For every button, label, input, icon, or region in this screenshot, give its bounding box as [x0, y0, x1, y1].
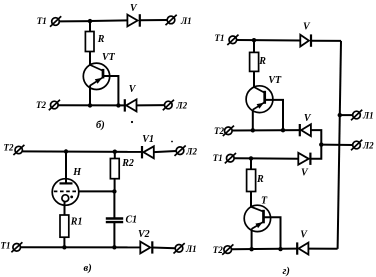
terminal T1 — [1, 241, 23, 253]
wire R1 to bottom rail — [63, 237, 65, 247]
diode V2 (anode left) — [138, 229, 152, 253]
wire T1 rail to diode — [237, 39, 301, 42]
node base junction — [281, 128, 285, 132]
svg-text:Л1: Л1 — [180, 16, 192, 26]
wire rail to L1 — [340, 114, 353, 116]
transistor VT — [246, 75, 282, 113]
wire VT base right then down — [265, 100, 283, 130]
terminal L2 — [175, 146, 198, 157]
terminal T1 (stage 1) — [215, 33, 239, 45]
node R2 top junction — [113, 150, 117, 154]
wire node to diode V — [90, 19, 127, 22]
wire L2 node across rail — [321, 144, 352, 146]
wire T1 rail to diode V2 — [21, 246, 141, 248]
node L2 junction — [319, 142, 323, 146]
wire T2 rail to diode V1 — [22, 150, 142, 153]
transistor VT — [83, 52, 115, 90]
wire R to VT collector — [89, 52, 91, 66]
svg-text:Т2: Т2 — [213, 245, 223, 255]
wire R to VT collector — [253, 71, 255, 87]
svg-text:г): г) — [283, 266, 290, 277]
wire T base right then down — [264, 217, 280, 249]
diode V (cathode left, upper middle) — [300, 113, 312, 137]
wire diode right then down to L2 node — [311, 130, 321, 145]
terminal T2 (stage 1) — [214, 126, 234, 136]
diode V (anode left, top) — [300, 21, 311, 47]
resistor R (stage 2) — [247, 169, 264, 191]
svg-text:Л2: Л2 — [185, 147, 197, 157]
node grid/R2/C1 junction — [112, 189, 116, 193]
svg-text:R: R — [256, 174, 264, 185]
svg-text:в): в) — [84, 263, 92, 274]
svg-text:Л1: Л1 — [185, 244, 197, 254]
terminal T2 (stage 2) — [213, 244, 234, 255]
diode V (anode left) — [127, 3, 139, 27]
node emitter junction — [88, 103, 92, 107]
wire diode right then up to L2 node — [310, 145, 321, 159]
terminal T2 — [4, 143, 25, 156]
svg-text:С1: С1 — [126, 215, 138, 226]
wire T1 rail to diode — [234, 157, 298, 160]
wire C1 to bottom rail — [113, 222, 115, 247]
svg-text:Т1: Т1 — [37, 16, 47, 26]
node L1 junction on rail — [338, 113, 342, 117]
svg-text:R: R — [258, 56, 266, 67]
wire VT base right then down — [104, 76, 119, 105]
node emitter junction — [251, 128, 255, 132]
wire diode to L1 — [140, 19, 167, 21]
node base junction (stage 2) — [278, 247, 282, 251]
resistor R (stage 1) — [250, 52, 267, 71]
node base junction — [116, 103, 120, 107]
terminal T1 (stage 2) — [213, 153, 236, 163]
node emitter junction (stage 2) — [249, 247, 253, 251]
wire T2 rail to diode — [58, 104, 125, 106]
wire diode to rail corner — [308, 248, 337, 250]
diode V (cathode left, bottom) — [297, 229, 308, 254]
wire diode to right rail corner — [311, 40, 341, 42]
svg-text:Т2: Т2 — [36, 100, 46, 110]
svg-text:Л2: Л2 — [175, 101, 187, 111]
terminal L1 — [351, 110, 374, 121]
wire VT emitter to T2 rail — [252, 110, 254, 131]
wire V1 to L2 — [154, 151, 176, 152]
svg-text:R2: R2 — [121, 158, 134, 169]
wire lamp cathode to R1 — [64, 202, 66, 216]
wire T2 rail to diode — [232, 129, 300, 131]
terminal L2 — [163, 100, 188, 111]
speck — [131, 121, 133, 123]
svg-text:Т2: Т2 — [4, 143, 14, 153]
node lamp anode junction — [64, 149, 68, 153]
diode V (cathode left) — [125, 84, 137, 112]
resistor R2 — [110, 152, 133, 179]
svg-text:Н: Н — [72, 167, 82, 178]
svg-text:б): б) — [96, 120, 105, 131]
resistor R1 — [60, 215, 82, 237]
wire T2 rail to diode — [232, 248, 298, 251]
svg-text:Л2: Л2 — [362, 141, 374, 151]
svg-text:V1: V1 — [142, 134, 154, 145]
transistor T — [244, 195, 270, 231]
wire T emitter to bottom rail — [251, 229, 253, 250]
svg-text:Т2: Т2 — [214, 126, 224, 136]
wire lamp grid to R2/C1 node — [79, 190, 115, 192]
capacitor C1 — [106, 215, 137, 226]
svg-text:T: T — [261, 195, 268, 206]
diode V1 (cathode left) — [142, 134, 154, 159]
svg-text:Л1: Л1 — [362, 111, 374, 121]
node R1 bottom junction — [62, 245, 66, 249]
terminal L1 — [166, 15, 192, 27]
speck — [171, 141, 173, 143]
svg-text:R: R — [97, 34, 105, 45]
node C1 bottom junction — [112, 245, 116, 249]
wire R to T collector — [250, 192, 252, 208]
svg-text:VT: VT — [268, 75, 282, 86]
svg-text:Т1: Т1 — [213, 153, 223, 163]
wire node to resistor R — [253, 40, 255, 52]
wire right vertical rail — [338, 41, 341, 249]
wire node to resistor R — [89, 21, 91, 31]
wire lamp anode lead — [65, 152, 67, 184]
svg-text:Т1: Т1 — [215, 33, 225, 43]
svg-text:V2: V2 — [138, 229, 150, 240]
terminal T2 — [36, 100, 60, 110]
wire diode to L2 — [137, 104, 165, 106]
diode V (anode left, lower middle) — [298, 153, 310, 179]
wire node to resistor R (stage 2) — [250, 158, 252, 169]
terminal T1 — [37, 16, 61, 27]
node R top junction — [252, 38, 256, 42]
node R top junction (stage 2) — [249, 156, 253, 160]
wire node to C1 — [113, 191, 115, 218]
wire V2 to L1 — [152, 247, 175, 250]
resistor R — [85, 32, 104, 52]
terminal L1 — [174, 243, 197, 254]
wire VT emitter to bottom rail — [89, 85, 91, 105]
svg-text:Т1: Т1 — [1, 241, 11, 251]
lamp H — [52, 167, 82, 205]
wire T1 to node — [59, 20, 90, 22]
wire R2 to node — [114, 179, 116, 192]
svg-text:VT: VT — [102, 52, 116, 63]
terminal L2 — [351, 140, 374, 151]
node R top junction — [88, 19, 92, 23]
svg-text:R1: R1 — [70, 216, 83, 227]
